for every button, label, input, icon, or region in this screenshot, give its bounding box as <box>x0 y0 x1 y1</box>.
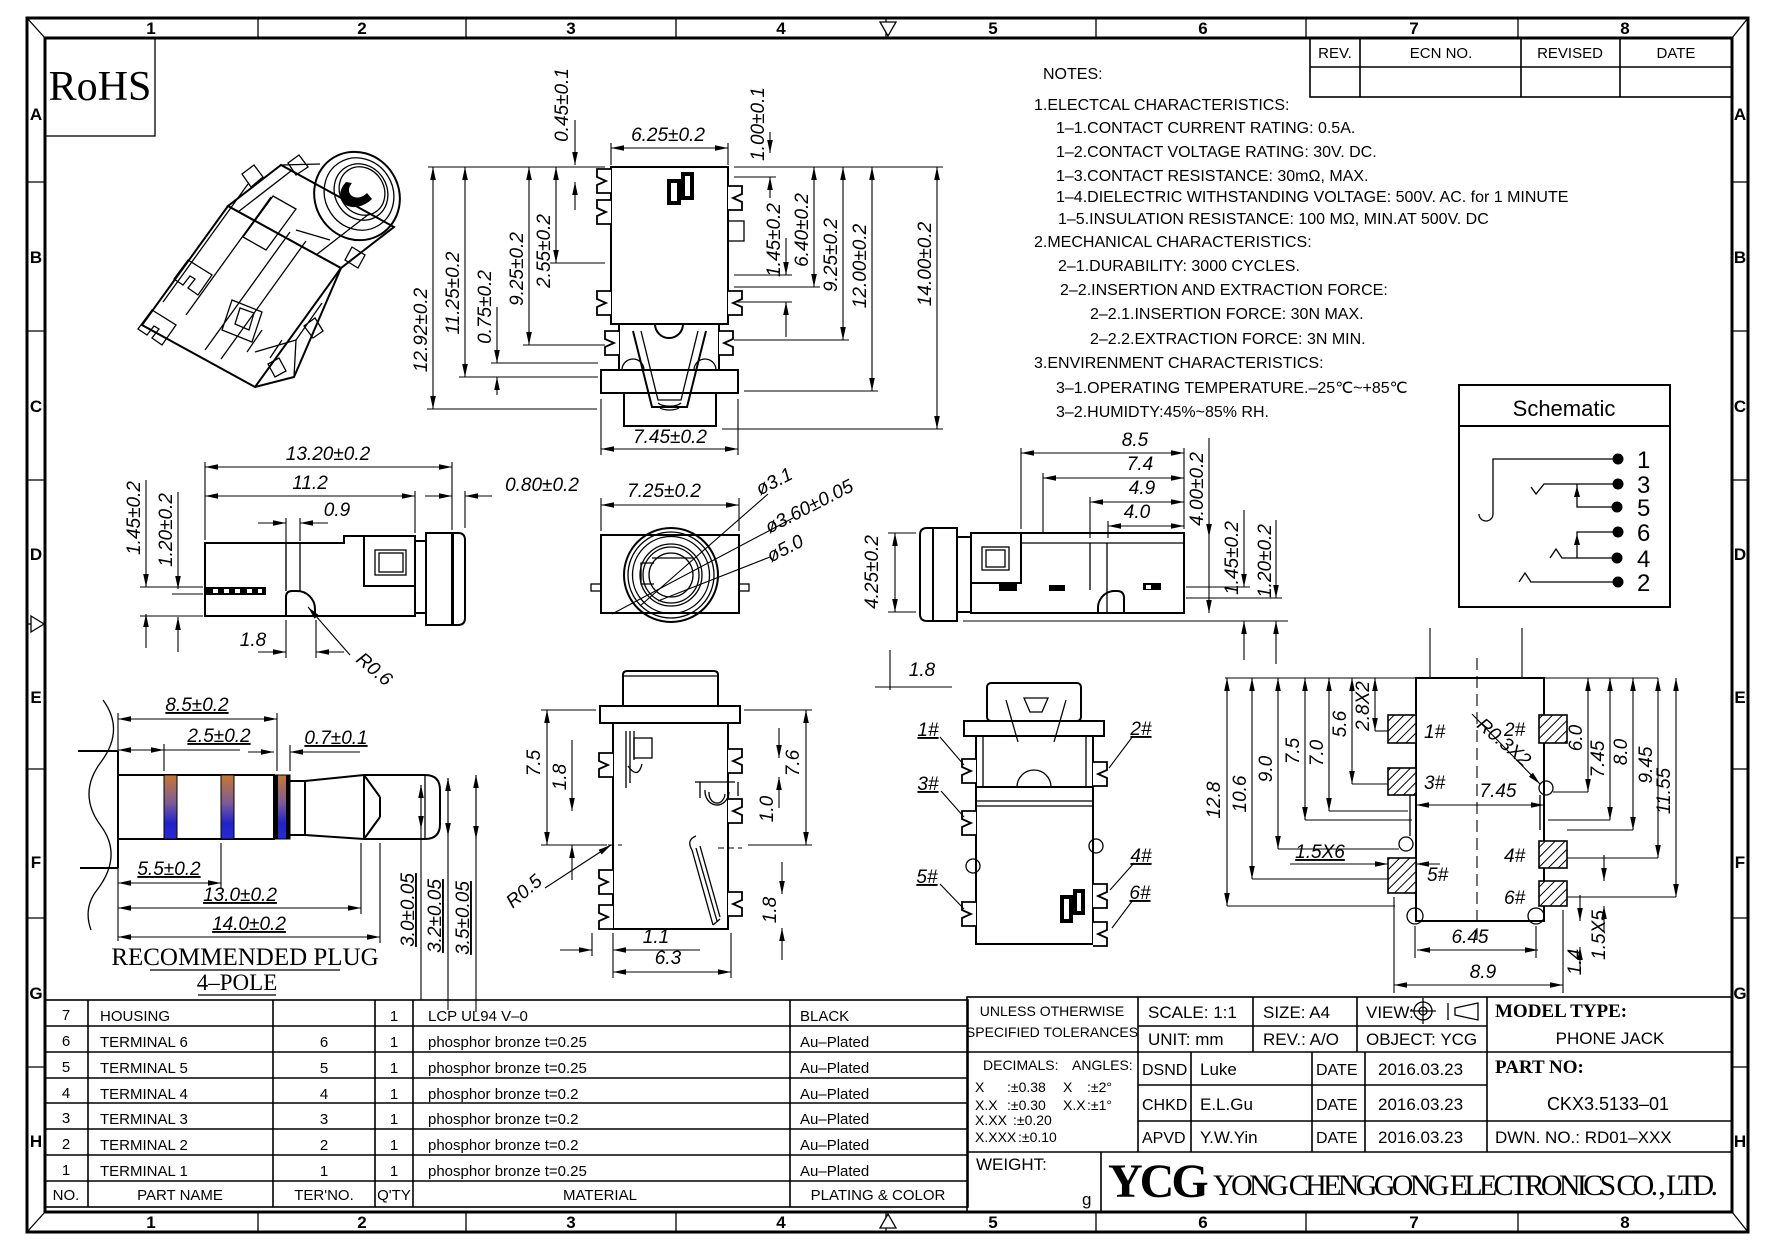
svg-text:BLACK: BLACK <box>800 1008 849 1025</box>
svg-text:TERMINAL 2: TERMINAL 2 <box>100 1137 188 1154</box>
dim 11.2 <box>414 491 416 533</box>
svg-text:1#: 1# <box>1424 722 1446 743</box>
svg-text:NOTES:: NOTES: <box>1043 66 1103 83</box>
svg-text:10.6: 10.6 <box>1230 775 1251 812</box>
hole mid left <box>1399 837 1413 851</box>
side view dimensions <box>140 462 492 658</box>
wire pin5 <box>1577 484 1617 507</box>
svg-text:8.5±0.2: 8.5±0.2 <box>165 695 229 716</box>
entry cup bottom arc <box>658 403 681 410</box>
svg-text:1: 1 <box>390 1034 398 1051</box>
svg-text:VIEW:: VIEW: <box>1366 1003 1414 1022</box>
dim 6.3 <box>612 956 614 978</box>
svg-text:2016.03.23: 2016.03.23 <box>1378 1128 1463 1147</box>
main body <box>971 533 1184 613</box>
sleeve cap <box>452 533 465 625</box>
dim 4.0 <box>1107 521 1109 538</box>
node 6 <box>1613 527 1624 538</box>
side detail right <box>1089 839 1103 853</box>
svg-text:OBJECT: YCG: OBJECT: YCG <box>1366 1030 1477 1049</box>
corner diagonal bottom-left <box>27 1212 45 1232</box>
R notch mirrored <box>1098 591 1124 613</box>
iso tab top 1 <box>242 165 263 187</box>
svg-text:12.00±0.2: 12.00±0.2 <box>850 223 871 308</box>
cap <box>623 671 718 706</box>
zone column ticks bottom <box>258 1212 1518 1232</box>
leader lines <box>640 494 768 606</box>
svg-text:D: D <box>1734 545 1746 564</box>
svg-text::±0.20: :±0.20 <box>1013 1112 1052 1128</box>
dim 9.25 left <box>528 167 530 345</box>
svg-text:phosphor bronze t=0.25: phosphor bronze t=0.25 <box>428 1163 587 1180</box>
zone labels bottom <box>146 1213 1629 1232</box>
svg-text:YCG: YCG <box>1108 1155 1208 1208</box>
terminals left <box>962 759 976 783</box>
svg-text:G: G <box>29 984 42 1003</box>
dim 5.5 <box>117 843 119 941</box>
R0.6 leader <box>308 607 350 655</box>
svg-text:g: g <box>1082 1190 1091 1209</box>
dim 2.5 <box>163 744 165 771</box>
barrel ring 4 <box>330 158 394 224</box>
dim 10.6 <box>1251 678 1253 879</box>
terminal tab left 2 <box>597 200 611 224</box>
svg-text:1.8: 1.8 <box>909 660 936 681</box>
svg-text:REV.: REV. <box>1318 45 1352 62</box>
svg-text:Au–Plated: Au–Plated <box>800 1086 869 1103</box>
pad 1# <box>1388 715 1416 743</box>
svg-text:7.25±0.2: 7.25±0.2 <box>627 481 701 502</box>
svg-text:1: 1 <box>390 1163 398 1180</box>
tip ring <box>364 775 380 839</box>
svg-text:X: X <box>1063 1079 1073 1095</box>
svg-text::±0.10: :±0.10 <box>1018 1129 1057 1145</box>
notes text block <box>1034 66 1568 421</box>
svg-text:13.20±0.2: 13.20±0.2 <box>286 444 371 465</box>
svg-text:B: B <box>30 248 42 267</box>
iso front lower block <box>163 184 306 359</box>
band 1 <box>164 775 177 839</box>
dim 1.8 below <box>285 620 287 658</box>
svg-text:1.45±0.2: 1.45±0.2 <box>1222 521 1243 595</box>
ext 12.92 bottom <box>427 408 597 410</box>
svg-text:2016.03.23: 2016.03.23 <box>1378 1095 1463 1114</box>
svg-text:1.0: 1.0 <box>757 795 778 822</box>
svg-text:1: 1 <box>390 1137 398 1154</box>
svg-text:1.20±0.2: 1.20±0.2 <box>156 493 177 567</box>
front view body <box>611 167 728 324</box>
svg-text:3.2±0.05: 3.2±0.05 <box>425 879 446 953</box>
svg-text:H: H <box>30 1132 42 1151</box>
svg-text:9.25±0.2: 9.25±0.2 <box>821 218 842 292</box>
svg-text:1.8: 1.8 <box>760 896 781 923</box>
svg-text:E: E <box>1734 688 1745 707</box>
svg-text:7.5: 7.5 <box>1283 737 1304 764</box>
svg-text:8.9: 8.9 <box>1470 962 1497 983</box>
iso tab bottom 2 <box>304 318 323 338</box>
svg-text:1.ELECTCAL CHARACTERISTICS:: 1.ELECTCAL CHARACTERISTICS: <box>1034 97 1289 114</box>
dim 7.45 r <box>1609 678 1611 820</box>
svg-text:DATE: DATE <box>1316 1097 1357 1114</box>
svg-text:H: H <box>1734 1132 1746 1151</box>
dim 1.1 <box>591 933 593 956</box>
svg-text:0.7±0.1: 0.7±0.1 <box>304 728 367 749</box>
view symbol cone <box>1448 1003 1478 1020</box>
svg-text:1: 1 <box>390 1086 398 1103</box>
svg-text:7.45: 7.45 <box>1588 740 1609 777</box>
barrel left edge to body <box>281 164 330 240</box>
wire pin1 tip <box>1479 459 1618 521</box>
svg-text:7.0: 7.0 <box>1307 739 1328 766</box>
terminal strip <box>206 587 266 595</box>
dim 7.25 <box>600 498 602 531</box>
dim 1.20 <box>1275 520 1277 598</box>
dim 1.45 left <box>145 480 147 587</box>
diagonal spring <box>692 846 720 925</box>
svg-text:2.8X2: 2.8X2 <box>1353 681 1374 732</box>
zone row ticks left <box>27 182 45 1067</box>
cap left <box>920 528 933 621</box>
latch <box>1006 700 1066 742</box>
dim 12.00 <box>871 167 873 391</box>
dim 1.0 <box>778 728 780 758</box>
cable body <box>78 751 118 868</box>
pad 3# <box>1388 768 1416 795</box>
svg-text:REVISED: REVISED <box>1537 45 1603 62</box>
svg-text:3#: 3# <box>917 774 939 795</box>
dim 0.7 <box>289 745 291 771</box>
dim 1.8 sec right <box>781 862 783 894</box>
svg-text:1: 1 <box>1637 447 1650 474</box>
dim 0.45 <box>574 120 576 165</box>
svg-text:4.9: 4.9 <box>1129 478 1156 499</box>
cable break line <box>88 700 113 930</box>
top internal line <box>1021 542 1184 544</box>
svg-text:TERMINAL 3: TERMINAL 3 <box>100 1111 188 1128</box>
svg-text:5.5±0.2: 5.5±0.2 <box>137 859 201 880</box>
dim 0.75 <box>496 307 498 363</box>
svg-text:X.X: X.X <box>975 1097 998 1113</box>
svg-text:1.45±0.2: 1.45±0.2 <box>764 203 785 277</box>
svg-text:TERMINAL 5: TERMINAL 5 <box>100 1060 188 1077</box>
leader 2# <box>1109 736 1133 768</box>
plug body <box>118 775 274 839</box>
neck <box>290 781 305 835</box>
svg-text:7.5: 7.5 <box>524 749 545 776</box>
svg-text:0.9: 0.9 <box>324 500 351 521</box>
dim 1.45 <box>1243 510 1245 587</box>
arc bump <box>1017 770 1051 787</box>
center arrow marker bottom <box>880 1214 896 1228</box>
svg-text:1.1: 1.1 <box>643 927 669 948</box>
svg-text:Au–Plated: Au–Plated <box>800 1034 869 1051</box>
svg-text:3.ENVIRENMENT CHARACTERISTICS: 3.ENVIRENMENT CHARACTERISTICS: <box>1034 355 1324 372</box>
svg-text:0.75±0.2: 0.75±0.2 <box>475 270 496 344</box>
svg-text:4–POLE: 4–POLE <box>197 970 278 995</box>
svg-text:TERMINAL 1: TERMINAL 1 <box>100 1163 188 1180</box>
terminals right <box>1093 762 1107 786</box>
pad marks <box>1062 897 1071 921</box>
svg-text:RoHS: RoHS <box>49 64 152 110</box>
switch box <box>364 536 415 586</box>
dim 1.8 sec <box>571 740 573 811</box>
svg-text:DATE: DATE <box>1657 45 1696 62</box>
svg-text:9.0: 9.0 <box>1256 755 1277 782</box>
dim 7.5 pcb <box>1304 678 1306 820</box>
cap <box>987 683 1081 721</box>
svg-text:PART NO:: PART NO: <box>1495 1057 1584 1078</box>
arrow junction 6-4 <box>1574 534 1580 545</box>
svg-text:DWN. NO.: RD01–XXX: DWN. NO.: RD01–XXX <box>1495 1128 1672 1147</box>
arc bump below body <box>655 324 683 338</box>
iso bottom edge detail <box>255 268 341 387</box>
dim 1.5X6 <box>1290 863 1388 865</box>
svg-text:7.6: 7.6 <box>783 749 804 776</box>
svg-text:Au–Plated: Au–Plated <box>800 1163 869 1180</box>
foot right <box>739 584 749 591</box>
dim 12.92 <box>432 167 434 409</box>
svg-text:3#: 3# <box>1424 773 1446 794</box>
svg-text:PLATING & COLOR: PLATING & COLOR <box>811 1187 946 1204</box>
svg-text:13.0±0.2: 13.0±0.2 <box>203 885 277 906</box>
svg-text:3: 3 <box>566 1213 575 1232</box>
leader 3# <box>941 791 964 817</box>
svg-text:Au–Plated: Au–Plated <box>800 1111 869 1128</box>
svg-text:6.25±0.2: 6.25±0.2 <box>631 125 705 146</box>
svg-text:DATE: DATE <box>1316 1130 1357 1147</box>
svg-text:WEIGHT:: WEIGHT: <box>976 1155 1047 1174</box>
svg-text:LCP UL94 V–0: LCP UL94 V–0 <box>428 1008 528 1025</box>
dim 13.0 <box>360 843 362 914</box>
hole mid right <box>1539 781 1553 795</box>
svg-text:6: 6 <box>1198 1213 1207 1232</box>
svg-text:C: C <box>30 397 42 416</box>
circle view body <box>601 535 739 613</box>
svg-text:2–2.1.INSERTION FORCE: 3: 2–2.1.INSERTION FORCE: 30N MAX. <box>1090 306 1364 323</box>
svg-text:APVD: APVD <box>1142 1130 1186 1147</box>
svg-text:9.25±0.2: 9.25±0.2 <box>507 232 528 306</box>
dim 7.45 <box>600 399 602 455</box>
svg-text:5: 5 <box>1637 495 1650 522</box>
dim 8.5 plug <box>117 713 119 771</box>
hole bottom right <box>1528 908 1544 924</box>
ring r28 <box>643 547 699 603</box>
svg-text:1: 1 <box>390 1111 398 1128</box>
wire pin2 contact <box>1519 573 1618 582</box>
pad 2# <box>1539 715 1567 743</box>
upper body <box>976 736 1093 787</box>
leader 1# <box>940 737 964 765</box>
svg-text:3–1.OPERATING TEMPERATURE.–25: 3–1.OPERATING TEMPERATURE.–25℃~+85℃ <box>1056 380 1408 397</box>
ring r38 <box>633 537 710 614</box>
svg-text:7: 7 <box>1409 19 1418 38</box>
dim 7.0 <box>1328 678 1330 811</box>
centre dashed <box>1476 658 1478 940</box>
dim 5.6 <box>1351 678 1353 784</box>
tabs right <box>728 749 742 773</box>
ring r47 <box>624 528 718 622</box>
svg-text:1: 1 <box>390 1008 398 1025</box>
svg-text:Au–Plated: Au–Plated <box>800 1060 869 1077</box>
slot lines 0.9 <box>285 543 287 591</box>
svg-text::±0.38: :±0.38 <box>1007 1079 1046 1095</box>
svg-text:X.XX: X.XX <box>975 1112 1008 1128</box>
svg-text:11.2: 11.2 <box>292 473 328 494</box>
svg-text:MATERIAL: MATERIAL <box>563 1187 637 1204</box>
svg-text:2–2.INSERTION AND EXTRACTION: 2–2.INSERTION AND EXTRACTION FORCE: <box>1060 282 1388 299</box>
svg-text:C: C <box>1734 397 1746 416</box>
svg-text:1: 1 <box>320 1163 328 1180</box>
body <box>613 723 728 929</box>
front view dimensions <box>427 120 943 455</box>
svg-text:UNLESS OTHERWISE: UNLESS OTHERWISE <box>980 1003 1124 1019</box>
cone <box>305 775 364 839</box>
svg-text:4.0: 4.0 <box>1124 502 1151 523</box>
dim 8.9 <box>1393 897 1395 993</box>
svg-text:5: 5 <box>320 1060 328 1077</box>
dim 4.9 <box>1089 497 1091 538</box>
zone labels left <box>29 105 42 1151</box>
view symbol circle <box>1410 998 1436 1024</box>
svg-text:7: 7 <box>62 1007 70 1024</box>
svg-text:ANGLES:: ANGLES: <box>1072 1057 1133 1073</box>
svg-text:phosphor bronze t=0.2: phosphor bronze t=0.2 <box>428 1111 579 1128</box>
svg-text:DSND: DSND <box>1142 1062 1187 1079</box>
svg-text:5: 5 <box>988 1213 997 1232</box>
svg-text:phosphor bronze t=0.2: phosphor bronze t=0.2 <box>428 1086 579 1103</box>
iso terminal M 2 <box>174 260 212 295</box>
ext top left <box>428 166 605 168</box>
svg-text:X.XXX: X.XXX <box>975 1129 1017 1145</box>
wire pin3 contact <box>1531 484 1618 494</box>
svg-text:2: 2 <box>357 1213 366 1232</box>
svg-text:G: G <box>1733 984 1746 1003</box>
barrel ring 2 <box>311 145 408 244</box>
dim 4.00 <box>1208 438 1210 537</box>
svg-text:A: A <box>30 105 42 124</box>
ext lines left <box>140 586 203 588</box>
svg-text:6: 6 <box>320 1034 328 1051</box>
svg-text:1–2.CONTACT VOLTAGE RATING:: 1–2.CONTACT VOLTAGE RATING: 30V. DC. <box>1056 144 1377 161</box>
svg-text:B: B <box>1734 248 1746 267</box>
terminal tab lower left <box>605 331 619 355</box>
svg-text:YONG CHENGGONG ELECTRONICS: YONG CHENGGONG ELECTRONICS CO. , LTD. <box>1213 1169 1718 1202</box>
zone row ticks right <box>1732 182 1748 1067</box>
svg-text:1: 1 <box>390 1060 398 1077</box>
svg-text:7: 7 <box>1409 1213 1418 1232</box>
svg-text:phosphor bronze t=0.2: phosphor bronze t=0.2 <box>428 1137 579 1154</box>
dim 9.45 <box>1657 678 1659 858</box>
chord <box>652 557 693 559</box>
svg-text:4: 4 <box>776 19 786 38</box>
ring r43 <box>628 532 714 618</box>
svg-text:1–5.INSULATION RESISTANCE: 1: 1–5.INSULATION RESISTANCE: 100 MΩ, MIN.A… <box>1058 211 1489 228</box>
svg-text:1#: 1# <box>917 720 939 741</box>
svg-text:Luke: Luke <box>1200 1060 1237 1079</box>
barrel slot <box>340 182 372 207</box>
dim 2.55 <box>555 167 557 263</box>
svg-text:REV.: A/O: REV.: A/O <box>1263 1030 1339 1049</box>
svg-text:PART NAME: PART NAME <box>137 1187 223 1204</box>
svg-text:1.4: 1.4 <box>1565 949 1586 975</box>
side bump right <box>728 221 744 241</box>
svg-text:1: 1 <box>146 1213 155 1232</box>
svg-text:5#: 5# <box>1427 865 1449 886</box>
dim 1.00 <box>769 132 771 153</box>
dim 1.8 bracket <box>889 650 891 690</box>
svg-text:E.L.Gu: E.L.Gu <box>1200 1095 1253 1114</box>
lower housing left wall <box>618 324 620 370</box>
svg-text:ECN NO.: ECN NO. <box>1410 45 1473 62</box>
dim 3.2 <box>447 778 449 1010</box>
terminal tab right 2 <box>728 291 742 315</box>
svg-text:11.55: 11.55 <box>1654 768 1675 815</box>
svg-text:Au–Plated: Au–Plated <box>800 1137 869 1154</box>
svg-text:14.00±0.2: 14.00±0.2 <box>915 221 936 306</box>
svg-text:2#: 2# <box>1129 719 1152 740</box>
side detail left <box>966 859 980 873</box>
iso tab top 2 <box>288 155 308 175</box>
corner diagonal top-right <box>1732 18 1748 38</box>
wire pin6 <box>1577 532 1618 558</box>
svg-text:6: 6 <box>1198 19 1207 38</box>
svg-text::±2°: :±2° <box>1087 1079 1112 1095</box>
dim 12.8 <box>1226 678 1228 906</box>
node 2 <box>1613 577 1624 588</box>
svg-text:8: 8 <box>1620 1213 1629 1232</box>
svg-text:X: X <box>975 1079 985 1095</box>
svg-text:3: 3 <box>62 1110 70 1127</box>
tabs left <box>599 753 613 777</box>
svg-text:4: 4 <box>1637 546 1650 573</box>
node 3 <box>1613 479 1624 490</box>
dim 2.8X2 <box>1374 678 1376 731</box>
svg-text:UNIT: mm: UNIT: mm <box>1148 1030 1224 1049</box>
svg-text:1.5X5: 1.5X5 <box>1589 910 1610 960</box>
dim 3.5 <box>475 775 477 1012</box>
svg-text:F: F <box>1735 853 1745 872</box>
dim 6.25 <box>610 143 612 165</box>
svg-text:8: 8 <box>1620 19 1629 38</box>
corner diagonal bottom-right <box>1732 1212 1748 1232</box>
zone labels right <box>1733 105 1746 1151</box>
iso top face <box>228 165 394 268</box>
terminal tab left 1 <box>597 169 611 193</box>
dim 0.9 <box>285 518 287 589</box>
svg-text:E: E <box>30 688 41 707</box>
svg-text:4.25±0.2: 4.25±0.2 <box>862 535 883 609</box>
spring top left <box>626 731 642 788</box>
svg-text:6#: 6# <box>1504 888 1526 909</box>
svg-text:2.55±0.2: 2.55±0.2 <box>534 214 555 289</box>
title block <box>967 997 1732 1212</box>
schematic box <box>1459 385 1670 607</box>
iso top face inner line <box>238 171 369 255</box>
node 5 <box>1612 502 1623 513</box>
svg-text:4: 4 <box>320 1086 328 1103</box>
pad 6# <box>1539 881 1567 906</box>
center arrow marker top <box>880 22 896 36</box>
iso lower latch detail <box>222 300 262 342</box>
svg-text:4: 4 <box>62 1085 70 1102</box>
flange <box>964 721 1104 736</box>
terminal tab left 3 <box>597 291 611 315</box>
svg-text:0.45±0.1: 0.45±0.1 <box>552 68 573 142</box>
bottom flange <box>601 370 738 393</box>
dim 9.25 right <box>842 167 844 340</box>
ext 11.25 bottom <box>459 376 598 378</box>
svg-text:6.0: 6.0 <box>1566 724 1587 751</box>
